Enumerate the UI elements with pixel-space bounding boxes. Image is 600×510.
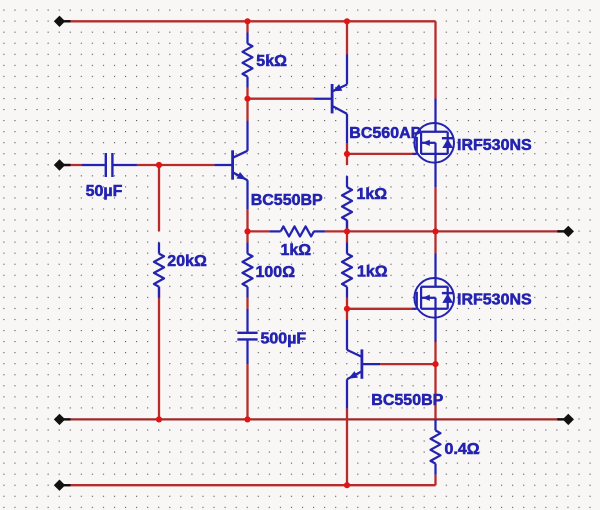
wire R2 top (158, 165, 160, 231)
junction negative rail / Q3 emitter (344, 482, 350, 488)
wire C1 to input junction (137, 164, 159, 166)
wire M1 source wire (434, 187, 436, 231)
junction R1 / Q2 base / Q1 collector (244, 96, 250, 102)
svg-text:0.4Ω: 0.4Ω (445, 441, 480, 458)
wire R6 top lead (346, 231, 348, 242)
wire output rail (347, 230, 568, 232)
wire Q3 base wire (380, 363, 435, 365)
wire V+ down to M1 drain (434, 21, 436, 98)
transistor Q3 BC550BP (347, 320, 444, 409)
svg-text:1kΩ: 1kΩ (357, 264, 388, 281)
wire top rail (60, 20, 436, 22)
svg-text:100Ω: 100Ω (256, 264, 296, 281)
junction Q1 emitter / R4 / R5 (244, 228, 250, 234)
wire R4 left lead (248, 230, 270, 232)
wire R3 top lead (346, 154, 348, 165)
wire negative rail (60, 484, 436, 486)
junction top rail / R1 (244, 18, 250, 24)
svg-text:50µF: 50µF (86, 183, 123, 200)
wire M2 gate wire (347, 308, 413, 310)
resistor R6 1k (342, 243, 388, 298)
wire R4 right lead (325, 230, 347, 232)
resistor R3 1k (342, 176, 387, 231)
wire Q2 collector wire (346, 143, 348, 154)
resistor R2 20k (154, 243, 207, 298)
resistor R5 100 (243, 243, 296, 298)
wire R5 top lead (246, 231, 248, 242)
wire R1 top lead (246, 21, 248, 32)
resistor R4 1k (270, 226, 325, 258)
wire R7 bottom lead (434, 475, 436, 486)
wire Q1 emitter wire (246, 209, 248, 231)
wire ground rail (60, 418, 569, 420)
junction Q2 collector / R3 / M1 gate (344, 151, 350, 157)
wire junction to Q1 base (159, 164, 214, 166)
junction ground rail / R2 (156, 416, 162, 422)
junction Q3 base / M2 source (432, 361, 438, 367)
wire Q2 base wire (248, 98, 314, 100)
svg-text:5kΩ: 5kΩ (256, 53, 287, 70)
wire Q1 collector wire (246, 99, 248, 121)
capacitor C1 50uF (82, 153, 137, 200)
junction R6 / M2 gate / Q3 collector (344, 306, 350, 312)
port flag input (54, 159, 71, 170)
wire M2 source to ground crossing (434, 364, 436, 419)
wire R3 bottom lead (346, 220, 348, 231)
junction ground rail / C2 (244, 416, 250, 422)
svg-text:20kΩ: 20kΩ (167, 253, 207, 270)
wire R6 bottom lead (346, 298, 348, 309)
wire Q3 emitter wire (346, 408, 348, 485)
svg-text:BC560AP: BC560AP (349, 125, 421, 142)
junction output / M1 source / M2 drain (432, 228, 438, 234)
mosfet M2 IRF530NS (413, 254, 533, 343)
port flag ground right (557, 414, 574, 425)
junction input / R2 / Q1 base (156, 162, 162, 168)
svg-text:BC550BP: BC550BP (251, 192, 323, 209)
wire R1 bottom lead (246, 88, 248, 99)
wire M2 source wire (434, 342, 436, 364)
mosfet M1 IRF530NS (413, 99, 533, 188)
svg-text:BC550BP: BC550BP (371, 392, 443, 409)
svg-text:500µF: 500µF (261, 331, 307, 348)
wire input lead (60, 164, 82, 166)
wire M1 gate wire (347, 153, 413, 155)
wire M2 drain wire (434, 231, 436, 253)
junction top rail / Q2 emitter (344, 18, 350, 24)
wire Q2 emitter wire (346, 21, 348, 54)
wire R2 bottom (158, 287, 160, 420)
junction R4 / R6 / output (344, 228, 350, 234)
svg-text:1kΩ: 1kΩ (281, 242, 312, 259)
port flag V- left (54, 480, 71, 491)
wire R5 to C2 (246, 298, 248, 309)
port flag V+ top left (54, 16, 71, 27)
resistor R7 0.4 (431, 419, 480, 474)
transistor Q2 BC560AP (314, 54, 422, 143)
transistor Q1 BC550BP (214, 121, 323, 210)
capacitor C2 500uF (237, 309, 306, 364)
svg-text:1kΩ: 1kΩ (357, 186, 388, 203)
svg-text:IRF530NS: IRF530NS (457, 137, 532, 154)
port flag output right (557, 226, 574, 237)
svg-text:IRF530NS: IRF530NS (457, 292, 532, 309)
wire C2 bottom (246, 364, 248, 419)
wire Q3 collector wire (346, 309, 348, 320)
port flag ground left (54, 414, 71, 425)
resistor R1 5k (243, 32, 288, 87)
